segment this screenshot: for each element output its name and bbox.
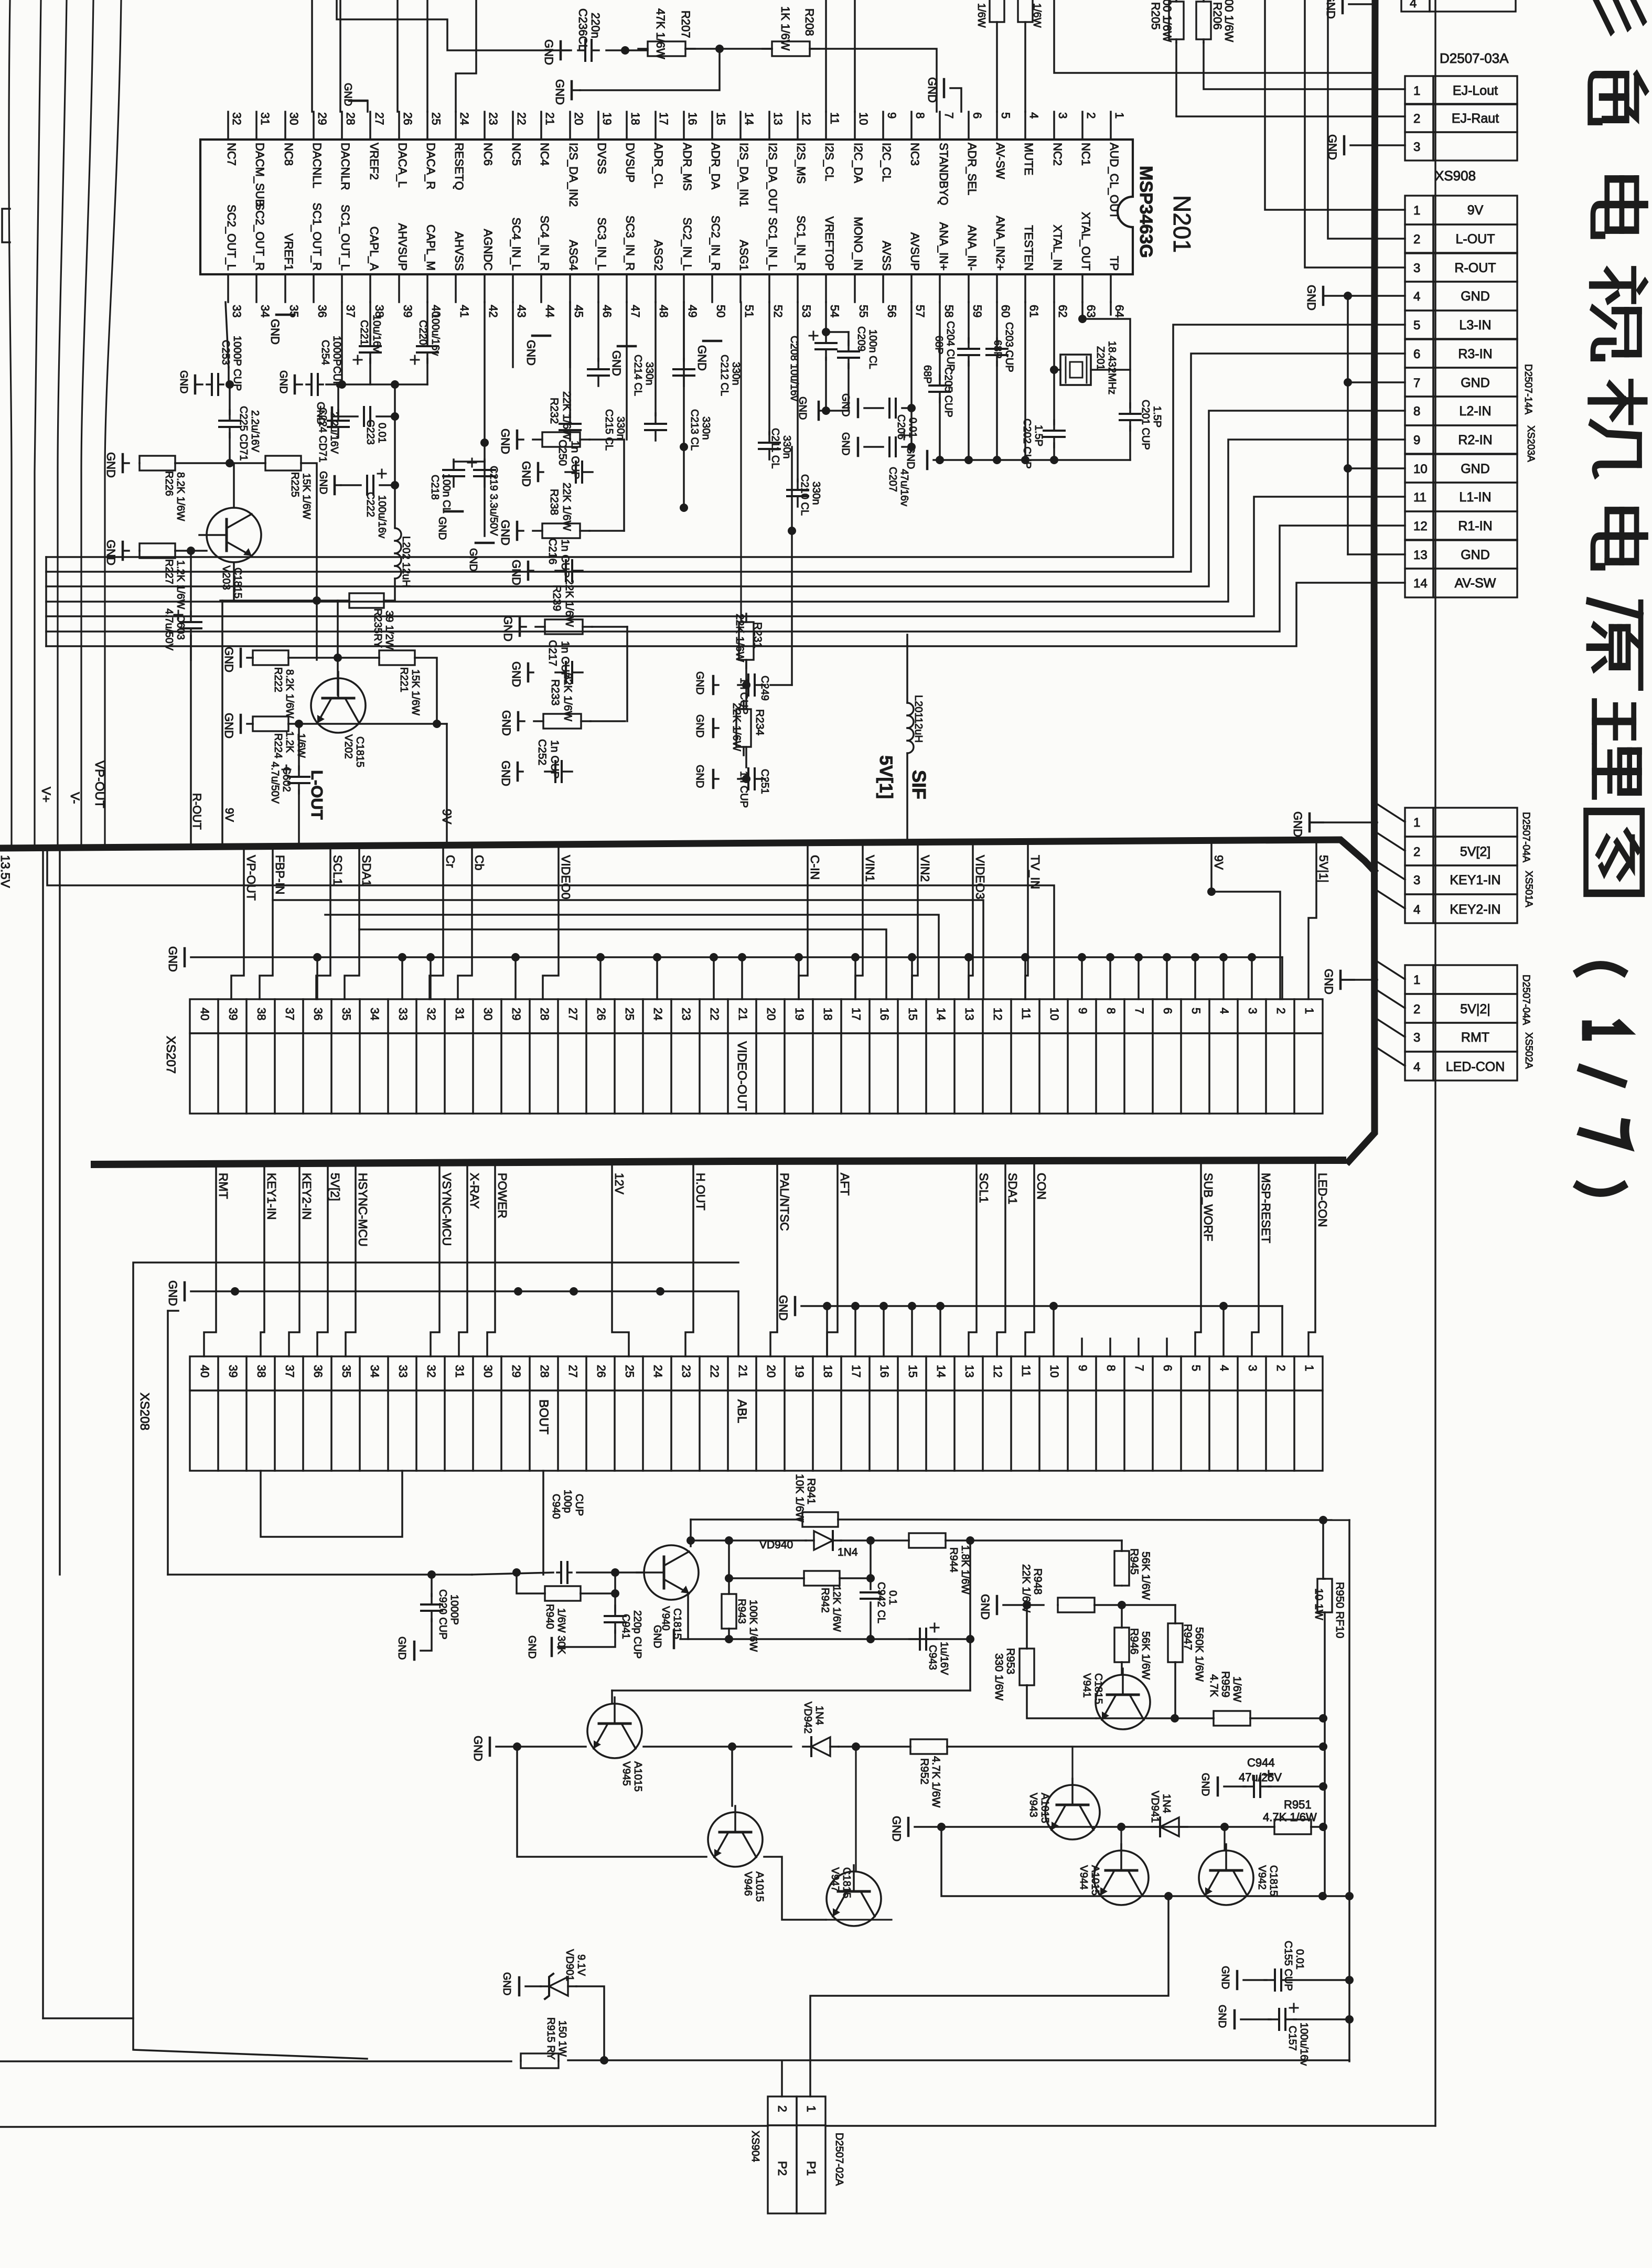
wire 9V left column: [221, 601, 223, 846]
title glyph 电: [1593, 179, 1646, 235]
svg-text:50: 50: [714, 305, 727, 317]
capacitor C221 10u/16V: [369, 302, 371, 340]
wire V946 out: [764, 1857, 826, 1920]
wire left edge bus verticals: [45, 557, 47, 646]
svg-text:C943: C943: [927, 1645, 938, 1670]
svg-text:32: 32: [425, 1365, 438, 1377]
svg-text:1.8K 1/6W: 1.8K 1/6W: [959, 1545, 971, 1595]
capacitor C224 2.2u/16V: [337, 384, 339, 414]
wire thick bus horizontal lower: [94, 1160, 1343, 1164]
resistor R232: [516, 431, 519, 448]
svg-text:TV_IN: TV_IN: [1028, 855, 1042, 889]
wire x753 vertical: [394, 384, 396, 527]
svg-text:GND: GND: [104, 452, 117, 478]
wire top-left corner joins: [337, 0, 569, 50]
resistor R209 pull-up on pin5: [990, 0, 1004, 22]
svg-text:XS208: XS208: [137, 1393, 152, 1430]
svg-text:R231: R231: [752, 622, 764, 648]
wire net y2998: [168, 1574, 472, 1576]
svg-text:SC3_IN_L: SC3_IN_L: [595, 217, 608, 271]
svg-text:VIDEO0: VIDEO0: [559, 855, 573, 899]
svg-text:GND: GND: [797, 397, 808, 420]
svg-text:SIF: SIF: [908, 770, 930, 799]
svg-text:GND: GND: [694, 714, 705, 737]
svg-text:2: 2: [1413, 845, 1420, 859]
svg-text:SC1_IN_L: SC1_IN_L: [766, 217, 779, 271]
svg-text:R943: R943: [736, 1599, 747, 1624]
svg-text:DACA_L: DACA_L: [396, 143, 409, 188]
svg-text:36: 36: [312, 1365, 325, 1377]
svg-text:GND: GND: [610, 350, 623, 376]
svg-text:14: 14: [935, 1008, 948, 1020]
svg-text:12: 12: [991, 1008, 1004, 1020]
svg-text:GND: GND: [553, 79, 566, 105]
transistor V940 C1815: [644, 1545, 699, 1600]
svg-text:22: 22: [515, 112, 528, 125]
capacitor C944 47u/25V: [1217, 1778, 1219, 1795]
capacitor C207 47u/16v: [888, 437, 891, 456]
svg-text:VD901: VD901: [564, 1949, 575, 1981]
svg-text:1: 1: [1303, 1008, 1316, 1014]
connector XS501A: [1405, 808, 1433, 837]
svg-text:9: 9: [1076, 1365, 1089, 1371]
svg-text:26: 26: [595, 1008, 608, 1020]
wire RMT: [204, 1164, 216, 1356]
svg-text:GND: GND: [926, 77, 939, 103]
capacitor C217: [527, 664, 530, 681]
resistor R950 RF10 10 1W: [1317, 1579, 1332, 1612]
svg-text:DACA_R: DACA_R: [424, 143, 437, 189]
svg-text:EJ-Raut: EJ-Raut: [1452, 111, 1499, 126]
svg-text:MSP3463G: MSP3463G: [1136, 166, 1156, 258]
wire xtal gnd rail: [934, 459, 1130, 461]
svg-text:I2S_MS: I2S_MS: [795, 143, 808, 184]
svg-text:16: 16: [878, 1008, 891, 1020]
wire 9V junction dot: [1207, 887, 1216, 896]
svg-text:VIDEO3: VIDEO3: [973, 855, 987, 899]
svg-text:1.2K: 1.2K: [284, 731, 295, 753]
wire VIN2: [912, 846, 918, 999]
svg-text:L202 12uH: L202 12uH: [400, 536, 412, 587]
transistor V202 C1815: [311, 678, 366, 733]
svg-text:C-IN: C-IN: [808, 855, 822, 880]
capacitor C251 1n CUP: [712, 770, 715, 788]
svg-text:8: 8: [1104, 1008, 1118, 1014]
wire R231 chain: [745, 660, 747, 709]
svg-text:C253: C253: [220, 340, 231, 365]
wire corner top mid: [1054, 0, 1372, 73]
resistor R227 1.2K 1/6W: [140, 543, 175, 558]
ground C236: [560, 41, 562, 59]
svg-text:V947: V947: [829, 1867, 841, 1892]
svg-text:1: 1: [1303, 1365, 1316, 1371]
wire SDA1: [345, 846, 359, 999]
capacitor C602 4.7u/50V: [298, 724, 300, 769]
wire MSP-RESET: [1252, 1164, 1259, 1356]
svg-text:C225 CD71: C225 CD71: [238, 406, 249, 461]
svg-text:5: 5: [1413, 318, 1420, 333]
wire H.OUT: [685, 1164, 693, 1356]
svg-text:I2S_DA_IN2: I2S_DA_IN2: [567, 143, 580, 207]
svg-text:RESETQ: RESETQ: [453, 143, 466, 190]
svg-text:5: 5: [999, 112, 1012, 119]
svg-text:GND: GND: [1291, 811, 1304, 837]
svg-text:VD940: VD940: [759, 1539, 793, 1551]
svg-text:26: 26: [401, 112, 414, 125]
wire AFT: [827, 1164, 838, 1356]
svg-text:18: 18: [821, 1365, 834, 1377]
svg-text:GND: GND: [890, 1816, 903, 1842]
wire diagonals to XS502A: [1377, 961, 1405, 979]
svg-text:GND: GND: [1461, 462, 1490, 476]
svg-text:34: 34: [368, 1008, 381, 1020]
resistor R239: [519, 618, 521, 636]
svg-text:C220: C220: [417, 320, 428, 345]
svg-text:11: 11: [1020, 1365, 1033, 1377]
svg-text:10u/16v: 10u/16v: [371, 315, 382, 352]
svg-text:C208 10u/16v: C208 10u/16v: [788, 336, 800, 401]
svg-text:R205: R205: [1149, 2, 1162, 30]
svg-text:FBP-IN: FBP-IN: [273, 855, 287, 894]
svg-text:0.01: 0.01: [1294, 1949, 1305, 1970]
resistor R205 100 1/6W: [1169, 2, 1184, 39]
svg-text:LED-CON: LED-CON: [1316, 1173, 1329, 1227]
svg-text:C603: C603: [175, 615, 186, 640]
wire C253 node down: [226, 380, 234, 389]
resistor R915 RY 150 1W: [521, 2053, 559, 2068]
svg-text:2: 2: [1274, 1008, 1288, 1014]
svg-text:5: 5: [1189, 1008, 1203, 1014]
svg-text:ANA_IN-: ANA_IN-: [966, 225, 979, 271]
svg-text:1: 1: [1413, 973, 1420, 987]
wire gnd to pin13: [1348, 553, 1405, 555]
capacitor C201 CUP 1.5P: [1120, 413, 1141, 415]
svg-text:HSYNC-MCU: HSYNC-MCU: [356, 1173, 370, 1247]
svg-text:SDA1: SDA1: [360, 855, 373, 886]
svg-text:KEY1-IN: KEY1-IN: [1450, 873, 1500, 887]
capacitor C252: [517, 763, 519, 780]
svg-text:R-OUT: R-OUT: [1454, 261, 1496, 275]
wire V942 base: [1224, 1827, 1225, 1849]
svg-text:37: 37: [344, 305, 357, 317]
svg-text:24: 24: [651, 1008, 664, 1020]
diode VD941 1N4: [1160, 1817, 1179, 1836]
wire pin26 up: [396, 0, 399, 112]
svg-text:31: 31: [453, 1008, 466, 1020]
svg-text:12: 12: [991, 1365, 1004, 1377]
svg-text:13: 13: [963, 1008, 976, 1020]
svg-text:R207: R207: [679, 10, 692, 38]
wire R235 to L202: [384, 600, 395, 602]
svg-text:2: 2: [1274, 1365, 1288, 1371]
wire R940 right up: [614, 1572, 616, 1612]
svg-text:VD941: VD941: [1149, 1791, 1161, 1823]
wire LED-CON: [1308, 1164, 1315, 1356]
svg-text:C213 CL: C213 CL: [689, 409, 700, 451]
svg-text:9V: 9V: [1467, 203, 1484, 218]
transistor V942 C1815: [1199, 1850, 1253, 1905]
op-amp U1 IC N201 MSP3463G body: [200, 140, 1133, 274]
svg-text:R940: R940: [544, 1604, 555, 1629]
svg-text:I2C_CL: I2C_CL: [880, 143, 893, 182]
wire pin63 to C201: [1082, 302, 1130, 408]
svg-text:23: 23: [680, 1365, 693, 1377]
wire pin29 up: [311, 0, 313, 112]
wire emitter line: [288, 723, 447, 725]
wire to connector pin1: [810, 1896, 1168, 2096]
svg-text:29: 29: [316, 112, 329, 125]
transistor V945 A1015: [587, 1704, 642, 1758]
svg-text:V942: V942: [1256, 1865, 1268, 1890]
svg-text:R3-IN: R3-IN: [1458, 347, 1492, 361]
svg-text:330n: 330n: [810, 482, 822, 505]
svg-text:6: 6: [1161, 1365, 1174, 1371]
wire XS208 bottom feeds: [261, 1471, 402, 1537]
ground rail XS208 left: [184, 1282, 186, 1300]
wire top audio rail: [606, 49, 648, 51]
wire VD901 to R915 node: [576, 1986, 604, 2060]
wire V945 line right: [643, 1746, 791, 1748]
wire pin2 up: [781, 2061, 783, 2096]
svg-text:47u/25V: 47u/25V: [1239, 1771, 1282, 1784]
svg-text:5V[2]: 5V[2]: [328, 1173, 342, 1201]
svg-text:C214 CL: C214 CL: [632, 355, 643, 396]
svg-text:330n: 330n: [643, 362, 655, 386]
wire R959 right: [1250, 1717, 1323, 1719]
svg-text:ANA_IN2+: ANA_IN2+: [994, 216, 1007, 271]
svg-text:8.2K 1/6W: 8.2K 1/6W: [284, 669, 295, 719]
svg-text:R947: R947: [1182, 1624, 1194, 1650]
title glyph 机: [1590, 382, 1645, 475]
svg-text:NC3: NC3: [908, 143, 921, 166]
wire x1660 vertical: [870, 1540, 872, 1589]
svg-text:9: 9: [885, 112, 898, 119]
svg-text:C218: C218: [429, 475, 441, 500]
svg-text:48: 48: [657, 305, 670, 317]
svg-text:C252: C252: [536, 739, 548, 765]
svg-text:XS908: XS908: [1435, 168, 1476, 184]
svg-text:GND: GND: [166, 1280, 179, 1306]
capacitor C249 1n CUP: [712, 676, 715, 694]
svg-text:PAL/NTSC: PAL/NTSC: [778, 1173, 791, 1231]
capacitor C205 CUP 68P: [939, 302, 941, 379]
wire right border net: [1434, 0, 1436, 2126]
capacitor C155 CUP 0.01: [1236, 1971, 1239, 1989]
ground C206: [857, 399, 860, 417]
wire HSYNC-MCU: [346, 1164, 356, 1356]
svg-text:RMT: RMT: [1461, 1030, 1489, 1045]
svg-text:R232: R232: [548, 398, 560, 424]
wire V203 collector: [233, 463, 235, 508]
svg-text:C204 CUP: C204 CUP: [945, 321, 956, 371]
svg-text:N201: N201: [1168, 195, 1196, 253]
svg-text:XS501A: XS501A: [1523, 871, 1534, 907]
svg-text:GND: GND: [520, 461, 533, 487]
svg-text:GND: GND: [651, 1625, 663, 1648]
wire SUB_WORF: [1195, 1164, 1201, 1356]
capacitor C210 CL 330n: [797, 302, 799, 482]
svg-text:MONO_IN: MONO_IN: [852, 217, 865, 271]
svg-text:P1: P1: [804, 2161, 818, 2176]
svg-text:NC2: NC2: [1051, 143, 1064, 166]
svg-text:5V[1]: 5V[1]: [876, 755, 896, 799]
svg-text:22K 1/6W: 22K 1/6W: [563, 579, 575, 627]
svg-text:11: 11: [828, 112, 841, 124]
svg-text:8: 8: [1104, 1365, 1118, 1371]
svg-text:39: 39: [401, 305, 414, 317]
ground R234: [712, 719, 715, 737]
svg-text:34: 34: [368, 1365, 381, 1377]
svg-text:61: 61: [1027, 305, 1040, 317]
wire V940 collector: [690, 1520, 692, 1546]
svg-text:R1-IN: R1-IN: [1458, 519, 1492, 533]
svg-text:C216: C216: [546, 538, 559, 564]
svg-text:R227: R227: [163, 559, 175, 584]
svg-text:4: 4: [1413, 1060, 1420, 1074]
svg-text:20: 20: [765, 1008, 778, 1020]
capacitor C223 0.01: [363, 407, 365, 426]
svg-text:36: 36: [312, 1008, 325, 1020]
resistor R235RY 39 1/2W: [349, 593, 384, 608]
svg-text:D2507-14A: D2507-14A: [1522, 364, 1533, 414]
svg-text:3: 3: [1246, 1008, 1259, 1014]
svg-text:A1015: A1015: [754, 1871, 765, 1902]
svg-text:100u/16v: 100u/16v: [430, 313, 441, 356]
svg-text:ASG2: ASG2: [652, 240, 665, 271]
svg-text:GND: GND: [510, 661, 523, 687]
ground pin47: [618, 345, 636, 348]
wire thick 9V bus vertical: [1349, 0, 1375, 1161]
svg-text:I2C_DA: I2C_DA: [852, 143, 865, 183]
svg-text:28: 28: [538, 1008, 551, 1020]
wire pin43 down: [512, 302, 514, 367]
svg-text:17: 17: [657, 112, 670, 125]
svg-text:DVSS: DVSS: [595, 143, 608, 174]
wire small corner top-left: [2, 209, 10, 242]
capacitor C940 100p CUP series: [560, 1562, 562, 1583]
svg-text:1n CUP: 1n CUP: [559, 539, 571, 578]
svg-text:CAPL_A: CAPL_A: [368, 227, 381, 271]
svg-text:GND: GND: [840, 432, 851, 455]
svg-text:C1815: C1815: [1268, 1865, 1279, 1896]
capacitor C942 CL 0.1: [861, 1591, 881, 1593]
svg-text:1.5P: 1.5P: [1151, 406, 1163, 427]
svg-text:68P: 68P: [933, 336, 945, 355]
wire V947 bottom: [826, 1919, 892, 1920]
svg-text:V945: V945: [620, 1761, 632, 1786]
svg-text:1/6W: 1/6W: [1031, 3, 1043, 28]
svg-text:57: 57: [914, 305, 927, 317]
ground DVSS: [571, 81, 573, 99]
svg-text:2: 2: [1413, 112, 1420, 126]
transistor V203 C1815: [207, 508, 261, 562]
svg-text:17: 17: [850, 1365, 863, 1377]
svg-text:1.2K 1/6W: 1.2K 1/6W: [175, 560, 186, 609]
svg-text:C155 CUP: C155 CUP: [1282, 1941, 1294, 1991]
wire R221 to 9V rail: [415, 658, 437, 724]
svg-text:1000PCUP: 1000PCUP: [331, 336, 342, 388]
wire corner x254: [133, 1263, 738, 2059]
svg-text:NC6: NC6: [481, 143, 495, 166]
svg-text:R238: R238: [548, 489, 560, 515]
svg-text:9.1V: 9.1V: [575, 1954, 587, 1976]
resistor R225 15K 1/6W: [230, 462, 265, 464]
wire R941 net upper: [691, 1518, 803, 1521]
svg-text:NC4: NC4: [538, 143, 551, 166]
svg-text:I2S_DA_OUT: I2S_DA_OUT: [766, 143, 779, 213]
svg-text:L-OUT: L-OUT: [308, 770, 326, 820]
svg-text:25: 25: [623, 1365, 636, 1377]
svg-text:AHVSS: AHVSS: [453, 231, 466, 271]
svg-text:2: 2: [776, 2105, 789, 2112]
wire V203 base: [191, 550, 207, 552]
svg-text:1: 1: [1113, 112, 1126, 119]
ground C254: [294, 376, 296, 393]
svg-text:59: 59: [971, 305, 984, 317]
ground C223: [331, 408, 334, 425]
svg-text:V-: V-: [68, 792, 82, 804]
wire stubs XS208 pins 6-9: [1166, 1339, 1168, 1356]
svg-text:30: 30: [481, 1365, 495, 1377]
svg-text:KEY2-IN: KEY2-IN: [300, 1173, 314, 1219]
svg-text:100u/16v: 100u/16v: [376, 495, 388, 538]
svg-text:SC2_OUT_R: SC2_OUT_R: [253, 202, 266, 271]
svg-text:63: 63: [1085, 305, 1098, 317]
svg-text:R941: R941: [805, 1478, 817, 1504]
wire ladder verticals: [623, 440, 625, 531]
svg-text:ANA_IN+: ANA_IN+: [937, 222, 950, 271]
title glyph /: [1582, 1068, 1623, 1083]
wire SCL1: [969, 1164, 977, 1356]
svg-text:C157: C157: [1286, 2026, 1298, 2051]
svg-text:2: 2: [1085, 112, 1098, 119]
svg-text:42: 42: [487, 305, 500, 317]
svg-text:ASG4: ASG4: [567, 240, 580, 271]
svg-text:20: 20: [572, 112, 585, 125]
svg-text:GND: GND: [501, 1972, 512, 1995]
svg-text:GND: GND: [1461, 548, 1490, 562]
resistor R207 47K 1/6W: [648, 41, 685, 56]
wire mid horizontal 3: [325, 915, 939, 999]
svg-text:330n: 330n: [781, 435, 792, 459]
svg-text:TESTEN: TESTEN: [1022, 225, 1035, 271]
svg-text:SC1_OUT_R: SC1_OUT_R: [310, 202, 324, 271]
ground top right: [1342, 0, 1344, 13]
svg-text:SC3_IN_R: SC3_IN_R: [624, 216, 637, 271]
svg-text:VREF2: VREF2: [368, 143, 381, 180]
svg-text:19: 19: [793, 1365, 806, 1377]
svg-text:GND: GND: [499, 429, 512, 454]
svg-text:C211 CL: C211 CL: [769, 428, 781, 468]
wire V946 base: [731, 1747, 733, 1806]
svg-text:X-RAY: X-RAY: [468, 1173, 481, 1209]
svg-text:4.7K 1/6W: 4.7K 1/6W: [930, 1756, 942, 1807]
title glyph 电 (2): [1593, 510, 1646, 566]
svg-text:SC1_IN_R: SC1_IN_R: [795, 216, 808, 271]
svg-text:Cr: Cr: [444, 855, 457, 868]
wire V945 to V946: [517, 1747, 706, 1857]
capacitor C212 CL 330n: [683, 302, 685, 361]
wire x1390 vertical: [728, 1540, 730, 1593]
svg-text:10: 10: [1413, 462, 1428, 476]
ground C222: [334, 476, 336, 494]
svg-text:GND: GND: [277, 370, 289, 393]
svg-text:68P: 68P: [992, 340, 1003, 359]
wire x2573 net: [1348, 1520, 1350, 2061]
svg-text:I2S_DA_IN1: I2S_DA_IN1: [737, 143, 750, 207]
svg-text:12: 12: [800, 112, 813, 125]
resistor R226 8.2K 1/6W: [140, 456, 175, 470]
